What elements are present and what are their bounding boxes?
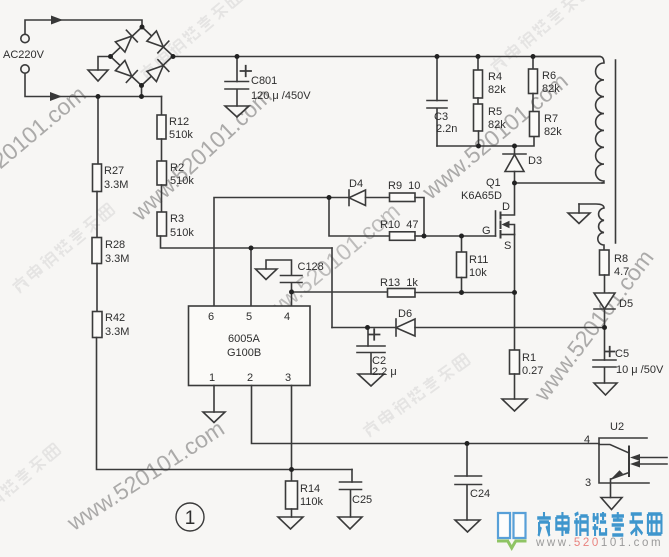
optocoupler U2 transistor (599, 445, 629, 454)
ground below pin1 (203, 412, 225, 423)
capacitor C3 (427, 101, 447, 147)
wire R12 column top (161, 97, 163, 116)
svg-text:R5: R5 (488, 106, 502, 118)
svg-text:6005A: 6005A (228, 333, 260, 345)
svg-text:510k: 510k (169, 129, 193, 141)
svg-text:D6: D6 (398, 308, 412, 320)
resistor R4 (477, 57, 479, 71)
wire R9 to node B (415, 198, 424, 237)
watermark hanzi left-middle (10, 202, 116, 294)
svg-text:R11: R11 (469, 254, 488, 266)
svg-text:C25: C25 (352, 494, 372, 506)
svg-text:110k: 110k (300, 496, 324, 508)
resistor R10 (390, 232, 416, 241)
watermark hanzi left-edge-bottom (0, 442, 62, 534)
bridge diode bottom-left (115, 60, 138, 83)
wire R6-R7 (532, 94, 534, 112)
resistor R14 (291, 470, 293, 482)
resistor R8 (600, 250, 610, 275)
svg-text:3.3M: 3.3M (105, 326, 129, 338)
svg-text:D4: D4 (349, 178, 363, 190)
svg-text:R7: R7 (544, 113, 558, 125)
svg-text:2.2 μ: 2.2 μ (372, 366, 397, 378)
wire AC bottom line (25, 73, 162, 97)
wire left column top (97, 97, 99, 165)
terminal circle AC bottom (21, 65, 29, 73)
resistor R2 (157, 161, 167, 185)
transformer core (615, 60, 617, 243)
wire pin1 to ground (213, 386, 215, 413)
wire node A down to R10 (329, 198, 390, 237)
transformer secondary winding (579, 204, 604, 250)
capacitor C5 (604, 328, 606, 361)
svg-text:K6A65D: K6A65D (461, 190, 502, 202)
capacitor C24 (455, 476, 482, 520)
ground below R1 (502, 399, 527, 411)
wire pin5 stub (250, 248, 252, 306)
svg-text:www.520101.com: www.520101.com (535, 537, 663, 549)
svg-text:120 μ /450V: 120 μ /450V (251, 90, 311, 102)
svg-text:D: D (502, 201, 510, 213)
ground below C24 (455, 520, 480, 532)
svg-text:AC220V: AC220V (3, 49, 45, 61)
wire gate line (424, 235, 496, 237)
svg-text:R9 10: R9 10 (388, 180, 420, 192)
bridge diode top-right (146, 30, 169, 53)
ground below C801 (225, 106, 249, 117)
resistor R7 (530, 112, 540, 137)
wire R12-R2 (161, 139, 163, 161)
svg-text:2.2n: 2.2n (436, 123, 457, 135)
ground arrow at secondary top (578, 204, 580, 213)
svg-text:1: 1 (185, 508, 196, 529)
svg-text:4: 4 (584, 434, 590, 446)
arrow on AC bottom wire (50, 92, 62, 101)
wire R4-R5 (477, 98, 479, 104)
circled 1 figure number (176, 503, 204, 531)
wire source down (514, 235, 516, 351)
svg-text:R6: R6 (542, 70, 556, 82)
svg-text:2: 2 (247, 372, 253, 384)
resistor R12 (157, 115, 166, 139)
wire pin6 net (214, 198, 329, 307)
ground below C2 (358, 374, 384, 386)
svg-text:U2: U2 (610, 421, 624, 433)
svg-text:3: 3 (285, 372, 291, 384)
wire R13 to source (415, 292, 515, 294)
wire R13 line (292, 291, 388, 293)
svg-text:R8: R8 (614, 253, 628, 265)
ground below C25 (338, 517, 362, 529)
wire C2 stub (367, 328, 369, 347)
svg-text:C3: C3 (434, 111, 448, 123)
wire drain node to transformer (515, 182, 605, 184)
svg-text:82k: 82k (488, 84, 506, 96)
wire pin4 stub (291, 292, 293, 306)
svg-text:C5: C5 (615, 348, 629, 360)
wire C801 stub (236, 57, 238, 82)
svg-text:R42: R42 (105, 312, 125, 324)
svg-text:82k: 82k (544, 126, 562, 138)
diode D6 (395, 319, 397, 336)
resistor R3 (157, 212, 167, 236)
svg-text:D3: D3 (528, 155, 542, 167)
arrow on AC top wire (51, 16, 63, 25)
watermark hanzi top-right (488, 0, 594, 74)
ground below C5 (594, 383, 617, 395)
svg-text:R13 1k: R13 1k (380, 277, 418, 289)
transformer primary winding (533, 57, 604, 184)
wire R3 bottom to y248 line (161, 236, 333, 248)
svg-text:4.7: 4.7 (614, 266, 629, 278)
svg-text:R28: R28 (105, 239, 125, 251)
diode D4 wire (329, 197, 349, 199)
wire bridge bottom stub (141, 86, 143, 97)
resistor R5 (474, 104, 483, 131)
svg-text:D5: D5 (619, 298, 633, 310)
svg-text:510k: 510k (170, 175, 194, 187)
bridge rectifier edges (111, 27, 174, 86)
svg-text:0.27: 0.27 (522, 365, 543, 377)
svg-text:82k: 82k (542, 83, 560, 95)
svg-text:5: 5 (246, 311, 252, 323)
svg-text:G: G (482, 225, 491, 237)
svg-text:3.3M: 3.3M (105, 253, 129, 265)
svg-text:R3: R3 (170, 213, 184, 225)
bridge diode top-left (115, 30, 138, 53)
diode D4 (348, 190, 350, 206)
wire C24 drop (466, 444, 468, 477)
junction dots (140, 25, 145, 30)
wire AC top line (25, 20, 142, 34)
terminal circle AC top (21, 34, 29, 42)
capacitor C25 (340, 482, 362, 517)
svg-text:S: S (504, 240, 511, 252)
wire R27-R28 (96, 192, 98, 238)
main HV rail (173, 56, 600, 58)
svg-text:R27: R27 (104, 165, 124, 177)
svg-text:3.3M: 3.3M (104, 179, 128, 191)
svg-text:82k: 82k (488, 119, 506, 131)
watermark hanzi bottom-center (361, 352, 471, 438)
wire R10 to node B (415, 235, 424, 237)
logo book icon (498, 513, 526, 538)
wire R28-R42 (96, 264, 98, 312)
wire D6 to C5 junction (415, 327, 605, 329)
wire R42 to bottom bus (97, 338, 353, 470)
svg-text:Q1: Q1 (486, 177, 501, 189)
svg-text:R12: R12 (169, 116, 189, 128)
wire corner x332 down (331, 248, 333, 328)
ground below U2 (601, 498, 622, 510)
diode D5 (604, 275, 606, 293)
wire C25 drop (351, 470, 353, 483)
resistor R11 (461, 236, 463, 252)
wire R2-R3 (161, 185, 163, 212)
light arrows into U2 (638, 458, 667, 465)
svg-text:3: 3 (585, 477, 591, 489)
svg-text:10k: 10k (469, 267, 487, 279)
wire pin3 down (291, 386, 293, 470)
ground at C128 (256, 269, 278, 280)
mosfet Q1 (495, 211, 497, 236)
logo hanzi text (537, 512, 661, 536)
svg-text:C128: C128 (298, 261, 324, 273)
diode D3 (514, 146, 516, 154)
optocoupler U2 box (599, 438, 649, 483)
svg-text:4: 4 (284, 311, 290, 323)
watermark hanzi top-left (138, 0, 244, 81)
svg-text:10 μ /50V: 10 μ /50V (616, 364, 664, 376)
resistor R1 (510, 350, 520, 374)
svg-text:6: 6 (208, 311, 214, 323)
bus under C3 R5 D3 R7 (437, 137, 534, 147)
svg-text:R2: R2 (170, 162, 184, 174)
capacitor C2 (357, 346, 385, 374)
bridge diode bottom-right (146, 60, 169, 83)
svg-text:R10 47: R10 47 (380, 219, 419, 231)
wire to D6 (332, 327, 396, 329)
capacitor C801 (225, 82, 249, 107)
resistor R9 (390, 193, 416, 202)
wire bridge left node to ground (98, 57, 111, 71)
svg-text:R4: R4 (488, 71, 502, 83)
ground at bridge (88, 70, 108, 81)
ic 6005A box (189, 306, 311, 386)
resistor R6 (532, 57, 534, 70)
svg-text:C24: C24 (470, 488, 490, 500)
svg-text:C801: C801 (251, 75, 277, 87)
svg-text:R14: R14 (300, 483, 320, 495)
capacitor C128 (266, 260, 302, 292)
svg-text:G100B: G100B (227, 347, 261, 359)
resistor R27 (93, 164, 102, 192)
resistor R28 (92, 238, 102, 264)
svg-text:510k: 510k (170, 227, 194, 239)
capacitor C3 stub (436, 57, 438, 101)
svg-text:R1: R1 (522, 352, 536, 364)
resistor R42 (93, 312, 103, 338)
svg-text:1: 1 (209, 372, 215, 384)
resistor R13 (388, 289, 416, 298)
wire pin2 bus (252, 386, 600, 444)
ground below R14 (278, 517, 303, 529)
